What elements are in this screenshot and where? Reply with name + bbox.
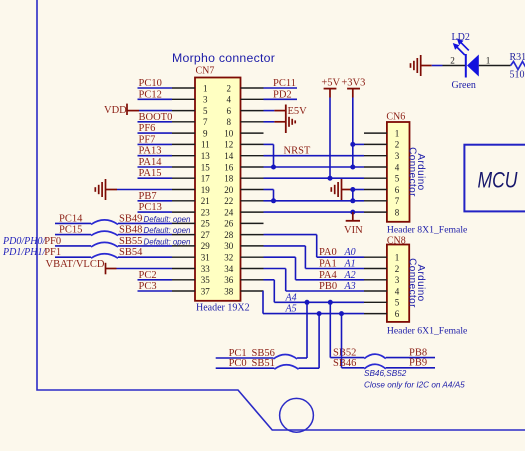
junction [317, 311, 322, 316]
svg-text:PB9: PB9 [409, 358, 427, 369]
SB55 note [144, 238, 192, 247]
net label BOOT0 [139, 112, 173, 123]
wire SB55 to pin [118, 245, 172, 247]
junction [305, 300, 310, 305]
svg-text:2: 2 [227, 83, 232, 93]
wire net PF6 [138, 132, 173, 134]
wire SB49 to pin [118, 222, 172, 224]
power port VIN [344, 212, 363, 236]
net label PC0 [229, 358, 247, 369]
svg-text:Header 19X2: Header 19X2 [196, 302, 250, 313]
resistor R31 [511, 62, 525, 70]
svg-text:VIN: VIN [344, 225, 363, 236]
svg-text:PA1: PA1 [319, 259, 337, 270]
svg-text:26: 26 [224, 219, 234, 229]
wire IOREF to CN6 pin 2 [353, 143, 364, 145]
solder bridge SB55 [91, 242, 118, 247]
svg-text:PA0: PA0 [319, 247, 337, 258]
wire pin8 to GND [264, 121, 286, 123]
junction [271, 165, 276, 170]
wire net A4 (pin 36) [264, 280, 365, 303]
net label PC10 [139, 78, 162, 89]
designator LD2 [452, 32, 470, 43]
svg-text:PA14: PA14 [139, 157, 163, 168]
svg-text:PC13: PC13 [139, 202, 162, 213]
CN6 pin numbers 1-8 [395, 128, 400, 217]
svg-text:1: 1 [486, 56, 491, 66]
net label PC2 [139, 270, 157, 281]
CN6 pin stubs (pins 1-8) [364, 133, 387, 212]
solder bridge SB49 [91, 220, 118, 225]
svg-text:ArduinoConnector: ArduinoConnector [407, 258, 427, 308]
svg-text:36: 36 [224, 275, 234, 285]
svg-text:37: 37 [201, 286, 211, 296]
solder bridge SB46 [364, 364, 386, 369]
wire net PA13 [138, 155, 173, 157]
power port VDD [104, 104, 139, 116]
designator label SB48 [119, 225, 142, 236]
svg-text:R31: R31 [510, 52, 525, 63]
connector CN7 title [172, 51, 275, 65]
svg-text:PA4: PA4 [319, 270, 337, 281]
LD2 emission arrows [453, 38, 469, 55]
designator CN8 [387, 236, 406, 247]
svg-text:22: 22 [224, 196, 233, 206]
net label PB0 [319, 281, 337, 292]
designator label SB51 [252, 358, 275, 369]
svg-text:CN7: CN7 [196, 66, 215, 77]
wire GND to pin 19 [117, 189, 172, 191]
CN7 pin numbers 1-38 [201, 83, 234, 296]
junction [350, 165, 355, 170]
power port +5V [321, 78, 340, 98]
svg-text:20: 20 [224, 185, 234, 195]
svg-text:17: 17 [201, 174, 211, 184]
LD2 pin number 1 [486, 56, 491, 66]
svg-text:BOOT0: BOOT0 [139, 112, 173, 123]
svg-text:PB0: PB0 [319, 281, 337, 292]
junction [328, 176, 333, 181]
svg-text:34: 34 [224, 264, 234, 274]
svg-text:5: 5 [395, 298, 400, 308]
SB48 note [144, 226, 192, 235]
junction [350, 142, 355, 147]
svg-text:SB46: SB46 [333, 358, 356, 369]
svg-text:5: 5 [203, 106, 208, 116]
net label PD0/PH0/PF0 [2, 236, 61, 247]
svg-text:VBAT/VLCD: VBAT/VLCD [46, 259, 105, 270]
svg-text:33: 33 [201, 264, 211, 274]
net label PB7 [139, 191, 157, 202]
svg-text:PC3: PC3 [139, 281, 157, 292]
CN6 name (rotated) [407, 147, 427, 197]
svg-text:5: 5 [395, 174, 400, 184]
svg-text:11: 11 [201, 140, 210, 150]
svg-text:PC0: PC0 [229, 358, 247, 369]
designator CN7 [196, 66, 215, 77]
net label PB9 [409, 358, 427, 369]
R31 value 510 [510, 70, 525, 81]
solder bridge SB51 [274, 365, 298, 370]
svg-text:Green: Green [452, 80, 476, 91]
svg-text:PF0: PF0 [44, 236, 61, 247]
net label A1 [344, 259, 356, 270]
designator label SB56 [252, 348, 275, 359]
net label A2 [344, 270, 356, 281]
svg-text:30: 30 [224, 241, 234, 251]
svg-text:PF6: PF6 [139, 123, 156, 134]
svg-text:27: 27 [201, 230, 211, 240]
svg-text:8: 8 [395, 207, 400, 217]
wire net A5 (pin 38) [263, 291, 364, 314]
svg-text:21: 21 [201, 196, 210, 206]
svg-text:25: 25 [201, 219, 211, 229]
net label PC14 [59, 213, 83, 224]
connector CN7 body [195, 78, 241, 301]
svg-text:PC15: PC15 [59, 225, 82, 236]
MCU block U-MCU [464, 145, 525, 212]
svg-text:A2: A2 [344, 270, 356, 281]
solder bridge SB52 [364, 354, 386, 359]
svg-text:PA13: PA13 [139, 146, 162, 157]
wire GND to CN6 pin 6 [353, 189, 364, 191]
svg-text:19: 19 [201, 185, 211, 195]
ground (pin 19) [95, 179, 117, 200]
svg-text:510: 510 [510, 70, 525, 81]
wire left of SB54 [55, 256, 91, 258]
svg-text:PC14: PC14 [59, 213, 83, 224]
svg-text:6: 6 [395, 185, 400, 195]
CN8 type label [387, 326, 467, 337]
wire A4 to SB52 [330, 302, 364, 357]
connector CN6 body [387, 122, 410, 222]
svg-text:3: 3 [395, 151, 400, 161]
wire SB54 to pin [118, 256, 172, 258]
svg-text:PB7: PB7 [139, 191, 157, 202]
LD2 comment Green [452, 80, 476, 91]
svg-text:13: 13 [201, 151, 211, 161]
svg-text:4: 4 [395, 162, 400, 172]
svg-text:3: 3 [395, 275, 400, 285]
svg-text:A0: A0 [344, 247, 356, 258]
wire PC0 to SB51 [216, 367, 275, 369]
junction [350, 187, 355, 192]
svg-text:38: 38 [224, 286, 234, 296]
net label PD2 [273, 89, 292, 100]
wire net PC3 [138, 290, 173, 292]
svg-text:PD1/PH1/: PD1/PH1/ [2, 247, 46, 258]
svg-text:+3V3: +3V3 [341, 78, 365, 89]
junction [271, 198, 276, 203]
wire net BOOT0 [138, 121, 173, 123]
connector CN8 body [387, 245, 409, 322]
svg-text:24: 24 [224, 207, 234, 217]
junction [328, 300, 333, 305]
svg-text:A3: A3 [344, 281, 356, 292]
svg-text:18: 18 [224, 174, 234, 184]
wire SB48 to pin [118, 234, 172, 236]
svg-text:28: 28 [224, 230, 234, 240]
wire net PD2 [264, 98, 298, 100]
svg-text:Header 8X1_Female: Header 8X1_Female [387, 225, 467, 236]
designator label SB49 [119, 213, 142, 224]
wire left of SB49 [55, 222, 91, 224]
net label PC15 [59, 225, 82, 236]
svg-text:7: 7 [395, 196, 400, 206]
designator label SB54 [119, 247, 143, 258]
wire net PF7 [138, 143, 173, 145]
svg-text:3: 3 [203, 95, 208, 105]
svg-text:SB48: SB48 [119, 225, 142, 236]
wire IOREF jog (pin 12) [264, 144, 274, 167]
svg-text:1: 1 [395, 128, 400, 138]
svg-text:31: 31 [201, 253, 210, 263]
wire SB46 to PB9 [386, 367, 435, 369]
net label PC12 [139, 89, 162, 100]
note SB46,SB52 [364, 369, 407, 378]
solder bridge SB56 [273, 355, 297, 360]
svg-text:Close only for I2C on A4/A5: Close only for I2C on A4/A5 [364, 381, 465, 390]
wire GND link CN6 pins 6-7 [352, 190, 354, 201]
svg-text:14: 14 [224, 151, 234, 161]
net label PB8 [409, 347, 427, 358]
wire VBAT to pin 33 [117, 268, 173, 270]
svg-text:LD2: LD2 [452, 32, 470, 43]
svg-text:4: 4 [395, 286, 400, 296]
wire net PC13 [138, 211, 173, 213]
svg-text:29: 29 [201, 241, 211, 251]
net label PA1 [319, 259, 337, 270]
CN7 type label [196, 302, 250, 313]
ground (LD2) [411, 55, 432, 76]
wire pin6 to E5V [264, 110, 286, 112]
wire left of SB48 [55, 234, 91, 236]
svg-text:SB46,SB52: SB46,SB52 [364, 369, 407, 378]
svg-text:2: 2 [395, 140, 400, 150]
junction [350, 210, 355, 215]
net label A5 [285, 304, 297, 315]
junction [350, 198, 355, 203]
CN7 right pin stubs (pins 2-38) [241, 88, 264, 291]
wire PC1 to SB56 [216, 357, 274, 359]
wire LD2 pin 1 to R31 [479, 65, 511, 67]
svg-text:A5: A5 [285, 304, 297, 315]
wire net PB7 [138, 200, 173, 202]
svg-text:PF7: PF7 [139, 134, 156, 145]
svg-text:Header 6X1_Female: Header 6X1_Female [387, 326, 467, 337]
net label PA14 [139, 157, 163, 168]
wire net PB0 (A3) [264, 269, 365, 292]
wire left of SB55 [55, 245, 91, 247]
svg-text:SB55: SB55 [119, 236, 142, 247]
svg-text:A4: A4 [285, 292, 297, 303]
wire net PA14 [138, 166, 173, 168]
wire net NRST [264, 155, 365, 157]
LD2 pin number 2 [450, 56, 455, 66]
net label PC11 [273, 78, 296, 89]
designator CN6 [386, 112, 405, 123]
ground (pin 8) [289, 117, 295, 127]
wire A5 to SB46 [342, 314, 365, 368]
svg-text:2: 2 [395, 264, 400, 274]
wire SB51 to A5 [299, 314, 320, 369]
svg-text:PC2: PC2 [139, 270, 157, 281]
net label PA13 [139, 146, 162, 157]
CN8 pin numbers 1-6 [395, 253, 400, 319]
svg-text:16: 16 [224, 162, 234, 172]
svg-text:MCU: MCU [478, 168, 518, 193]
svg-text:Default: open: Default: open [144, 238, 192, 247]
net label PD1/PH1/PF1 [2, 247, 61, 258]
svg-text:SB51: SB51 [252, 358, 275, 369]
net label A4 [285, 292, 297, 303]
CN8 name (rotated) [407, 258, 427, 308]
svg-text:+5V: +5V [321, 78, 340, 89]
svg-text:PA15: PA15 [139, 168, 162, 179]
net label PC1 [229, 348, 247, 359]
solder bridge SB48 [91, 231, 118, 236]
wire net PC2 [138, 279, 173, 281]
svg-text:Morpho connector: Morpho connector [172, 51, 275, 65]
svg-text:E5V: E5V [288, 106, 308, 117]
CN6 type label [387, 225, 467, 236]
net label PA15 [139, 168, 162, 179]
svg-text:32: 32 [224, 253, 233, 263]
junction [339, 311, 344, 316]
svg-text:Default: open: Default: open [144, 215, 192, 224]
svg-text:PD0/PH0/: PD0/PH0/ [2, 236, 46, 247]
wire GND (pin 22 to CN6 pin 7) [264, 200, 365, 202]
svg-text:Default: open: Default: open [144, 226, 192, 235]
svg-text:ArduinoConnector: ArduinoConnector [407, 147, 427, 197]
net label A0 [344, 247, 356, 258]
svg-text:NRST: NRST [284, 146, 311, 157]
net label PA0 [319, 247, 337, 258]
wire net PA0 (A0) [264, 235, 365, 258]
net label PF6 [139, 123, 156, 134]
svg-text:12: 12 [224, 140, 233, 150]
wire GND to LD2 pin 2 [432, 65, 443, 67]
CN7 left pin stubs (pins 1-37) [172, 88, 195, 291]
SB49 note [144, 215, 192, 224]
wire SB52 to PB8 [386, 357, 435, 359]
svg-text:2: 2 [450, 56, 455, 66]
svg-text:10: 10 [224, 128, 234, 138]
svg-text:VDD: VDD [104, 105, 127, 116]
power port +3V3 [341, 78, 365, 98]
LED LD2 symbol [466, 54, 479, 78]
svg-text:PF1: PF1 [44, 247, 61, 258]
svg-text:6: 6 [395, 309, 400, 319]
svg-text:PC10: PC10 [139, 78, 162, 89]
+5V rail wire [329, 98, 331, 179]
svg-text:9: 9 [203, 128, 208, 138]
power port E5V [286, 105, 307, 134]
MCU label [478, 168, 518, 193]
svg-text:1: 1 [203, 83, 208, 93]
wire net PA4 (A2) [264, 257, 365, 280]
svg-text:8: 8 [227, 117, 232, 127]
designator SB46 [333, 358, 356, 369]
svg-text:SB49: SB49 [119, 213, 142, 224]
wire GND jog (pin 20) [264, 190, 274, 201]
CN8 pin stubs (pins 1-6) [364, 257, 387, 313]
ground (CN6 pin 6) [331, 179, 353, 200]
mounting hole [280, 398, 314, 432]
note close only [364, 381, 465, 390]
net label A3 [344, 281, 356, 292]
svg-text:PD2: PD2 [273, 89, 292, 100]
wire SB56 to A4 [297, 302, 307, 358]
wire net PC10 [138, 87, 173, 89]
svg-text:1: 1 [395, 253, 400, 263]
svg-text:6: 6 [227, 106, 232, 116]
net label PC3 [139, 281, 157, 292]
svg-text:A1: A1 [344, 259, 356, 270]
wire net PA1 (A1) [264, 246, 365, 269]
wire net PC11 [264, 87, 298, 89]
+3V3 rail wire [352, 98, 354, 168]
svg-text:4: 4 [227, 95, 232, 105]
wire VIN (pin 24 to CN6 pin 8) [264, 211, 365, 213]
svg-text:23: 23 [201, 207, 211, 217]
wire net PC12 [138, 98, 173, 100]
net label PA4 [319, 270, 337, 281]
LD2 pin 2 stub [443, 65, 466, 67]
svg-text:CN6: CN6 [386, 112, 405, 123]
wire VDD to pin 5 [139, 110, 172, 112]
svg-text:15: 15 [201, 162, 211, 172]
svg-text:SB54: SB54 [119, 247, 143, 258]
solder bridge SB54 [91, 254, 118, 259]
svg-text:35: 35 [201, 275, 211, 285]
svg-text:PC11: PC11 [273, 78, 296, 89]
net label PC13 [139, 202, 162, 213]
designator SB52 [333, 348, 356, 359]
net label PF7 [139, 134, 156, 145]
designator label SB55 [119, 236, 142, 247]
wire net PA15 [138, 177, 173, 179]
designator R31 [510, 52, 525, 63]
power port VBAT/VLCD [46, 259, 117, 274]
net label NRST [284, 146, 311, 157]
svg-text:PC12: PC12 [139, 89, 162, 100]
wire +5V (pin 18 to CN6 pin 5) [264, 177, 365, 179]
wire +3V3 (pin 16 to CN6 pin 4) [264, 166, 365, 168]
svg-text:7: 7 [203, 117, 208, 127]
